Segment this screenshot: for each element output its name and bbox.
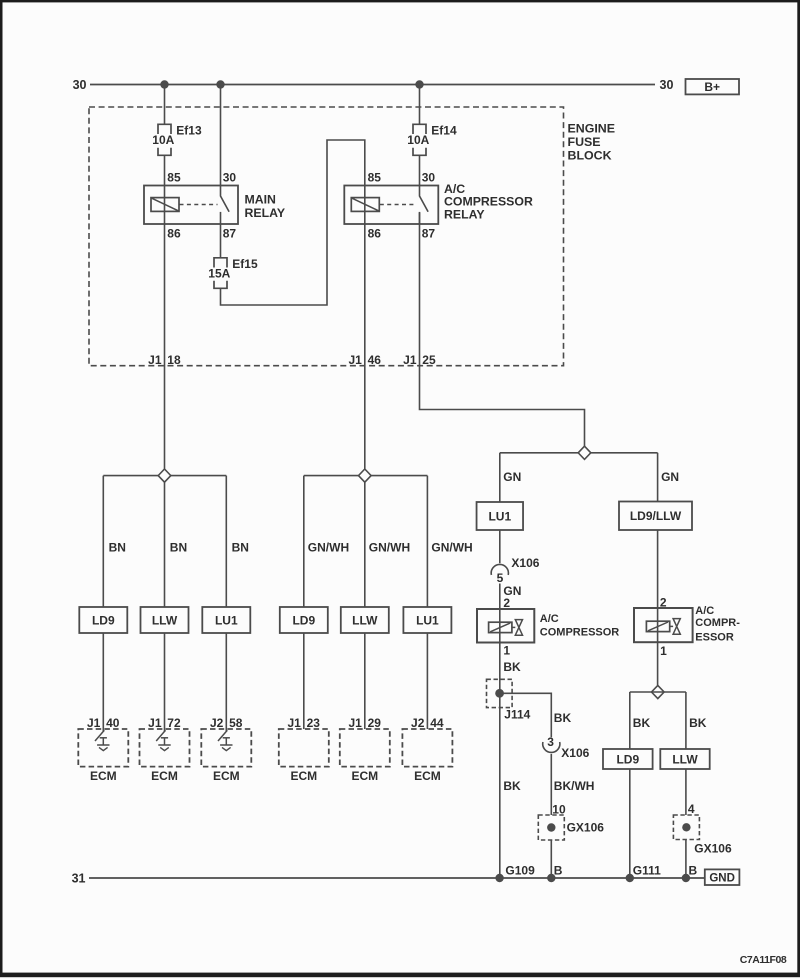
svg-text:30: 30	[422, 171, 436, 185]
svg-text:COMPR-: COMPR-	[695, 617, 740, 629]
svg-text:RELAY: RELAY	[245, 206, 286, 220]
svg-text:GX106: GX106	[567, 821, 605, 835]
svg-text:44: 44	[430, 716, 444, 730]
svg-text:ECM: ECM	[151, 769, 178, 783]
svg-text:BN: BN	[109, 541, 126, 555]
svg-text:J1: J1	[148, 353, 162, 367]
svg-text:J2: J2	[411, 716, 425, 730]
svg-text:J1: J1	[287, 716, 301, 730]
svg-text:BN: BN	[170, 541, 187, 555]
svg-text:BK: BK	[554, 711, 572, 725]
svg-text:BK: BK	[503, 779, 521, 793]
svg-text:B: B	[689, 864, 698, 878]
svg-text:A/C: A/C	[540, 613, 559, 625]
svg-text:4: 4	[688, 802, 695, 816]
svg-text:LLW: LLW	[672, 752, 698, 766]
svg-text:RELAY: RELAY	[444, 207, 485, 221]
svg-text:X106: X106	[561, 746, 589, 760]
svg-text:J1: J1	[148, 716, 162, 730]
svg-text:C7A11F08: C7A11F08	[740, 954, 787, 966]
svg-text:86: 86	[368, 227, 382, 241]
svg-text:COMPRESSOR: COMPRESSOR	[540, 626, 620, 638]
svg-text:J2: J2	[210, 716, 224, 730]
svg-text:ECM: ECM	[290, 769, 317, 783]
svg-text:J114: J114	[504, 708, 530, 722]
svg-text:G111: G111	[633, 864, 661, 878]
svg-text:GND: GND	[709, 872, 735, 884]
svg-text:Ef14: Ef14	[431, 124, 457, 138]
svg-text:B: B	[554, 864, 563, 878]
svg-text:72: 72	[167, 716, 181, 730]
svg-text:23: 23	[307, 716, 321, 730]
svg-text:BK: BK	[689, 716, 707, 730]
svg-text:5: 5	[497, 571, 504, 585]
svg-text:X106: X106	[511, 556, 539, 570]
svg-text:A/C: A/C	[695, 605, 714, 617]
svg-text:GN: GN	[503, 470, 521, 484]
svg-text:ECM: ECM	[351, 769, 378, 783]
svg-text:J1: J1	[87, 716, 101, 730]
svg-text:J1: J1	[348, 353, 362, 367]
svg-text:GN/WH: GN/WH	[431, 541, 472, 555]
svg-text:LLW: LLW	[152, 613, 178, 627]
svg-text:G109: G109	[505, 864, 535, 878]
svg-text:LD9: LD9	[292, 613, 315, 627]
svg-text:ENGINE: ENGINE	[568, 122, 616, 136]
svg-text:LD9: LD9	[616, 752, 639, 766]
svg-text:ECM: ECM	[90, 769, 117, 783]
svg-text:30: 30	[660, 78, 674, 92]
svg-text:29: 29	[368, 716, 382, 730]
svg-text:85: 85	[167, 171, 181, 185]
svg-text:BLOCK: BLOCK	[568, 149, 612, 163]
svg-text:40: 40	[106, 716, 120, 730]
svg-text:30: 30	[73, 78, 87, 92]
svg-text:ECM: ECM	[414, 769, 441, 783]
svg-text:J1: J1	[403, 353, 417, 367]
svg-text:Ef13: Ef13	[176, 124, 202, 138]
svg-text:1: 1	[503, 643, 510, 657]
svg-text:18: 18	[167, 353, 181, 367]
svg-text:J1: J1	[348, 716, 362, 730]
svg-text:85: 85	[368, 171, 382, 185]
svg-text:87: 87	[223, 227, 237, 241]
svg-text:LU1: LU1	[488, 509, 511, 523]
svg-text:1: 1	[660, 644, 667, 658]
svg-text:31: 31	[72, 871, 86, 885]
svg-text:GN: GN	[661, 470, 679, 484]
svg-text:MAIN: MAIN	[245, 193, 277, 207]
svg-text:BK: BK	[503, 660, 521, 674]
svg-text:FUSE: FUSE	[568, 135, 601, 149]
svg-text:BK/WH: BK/WH	[554, 779, 595, 793]
svg-text:GN/WH: GN/WH	[369, 541, 410, 555]
svg-text:10A: 10A	[152, 133, 174, 147]
svg-text:15A: 15A	[208, 267, 230, 281]
svg-text:B+: B+	[704, 80, 720, 94]
svg-text:87: 87	[422, 227, 436, 241]
svg-text:86: 86	[167, 227, 181, 241]
svg-text:3: 3	[547, 735, 554, 749]
svg-text:GX106: GX106	[694, 841, 732, 855]
svg-text:ECM: ECM	[213, 769, 240, 783]
svg-text:25: 25	[422, 353, 436, 367]
svg-text:GN/WH: GN/WH	[308, 541, 349, 555]
svg-text:LD9: LD9	[92, 613, 115, 627]
svg-text:10A: 10A	[407, 133, 429, 147]
svg-text:2: 2	[503, 596, 510, 610]
svg-text:30: 30	[223, 171, 237, 185]
svg-text:46: 46	[368, 353, 382, 367]
svg-text:Ef15: Ef15	[232, 257, 258, 271]
svg-text:LU1: LU1	[215, 613, 238, 627]
svg-text:BK: BK	[633, 716, 651, 730]
svg-text:LD9/LLW: LD9/LLW	[630, 509, 682, 523]
svg-text:BN: BN	[232, 541, 249, 555]
svg-text:58: 58	[229, 716, 243, 730]
svg-text:LLW: LLW	[352, 613, 378, 627]
svg-text:LU1: LU1	[416, 613, 439, 627]
svg-text:ESSOR: ESSOR	[695, 632, 734, 644]
